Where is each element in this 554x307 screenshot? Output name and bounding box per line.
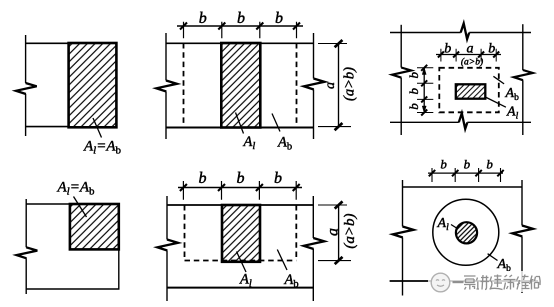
- watermark logo circle: [431, 273, 450, 292]
- fig2 top dimension line: [177, 25, 303, 27]
- watermark glyph ge: [464, 276, 476, 290]
- fig5 leader Ab: [277, 250, 287, 271]
- fig5 right edge upper segment: [312, 196, 314, 238]
- watermark logo face marks: [436, 280, 445, 287]
- fig6 dim extension stubs: [432, 168, 501, 182]
- fig5 right dim extension top: [318, 204, 347, 206]
- fig3 top dim extension stubs: [441, 49, 496, 62]
- fig2 leader Ab: [272, 114, 280, 132]
- fig6 right edge upper segment: [521, 180, 523, 226]
- fig3 dashed rectangle Ab: [439, 68, 499, 113]
- fig3 left dim arrow up: [422, 68, 426, 75]
- svg-text:b: b: [464, 157, 471, 172]
- fig3 left dim extension stubs: [417, 68, 433, 113]
- fig5 right dim vertical line: [338, 205, 340, 261]
- fig2 dashed line right: [296, 43, 298, 127]
- fig4 leader line: [74, 197, 87, 218]
- fig6 dim tick slashes: [429, 170, 504, 176]
- watermark white halo: [428, 271, 540, 292]
- fig6 top edge: [403, 186, 523, 188]
- svg-text:b: b: [274, 170, 282, 187]
- fig3 top edge right segment: [469, 32, 531, 34]
- fig1 bottom edge: [25, 126, 69, 128]
- fig1 top edge: [25, 42, 69, 44]
- fig5 dashed line right: [295, 205, 297, 261]
- fig6 right edge lower segment: [521, 237, 523, 294]
- fig5 right edge break symbol: [304, 238, 325, 249]
- fig2 right edge lower segment: [313, 90, 315, 140]
- svg-text:b: b: [406, 103, 421, 110]
- fig6 bottom edge: [390, 280, 538, 282]
- fig1 leader line to label: [93, 118, 102, 138]
- svg-text:b: b: [406, 88, 421, 95]
- fig5 left edge lower segment: [166, 251, 168, 302]
- svg-text:b: b: [486, 157, 493, 172]
- fig6 small hatched circle Al: [456, 222, 477, 243]
- fig3 bottom edge break symbol: [459, 113, 468, 129]
- fig4 right edge lower segment: [118, 249, 120, 289]
- svg-text:b: b: [444, 42, 451, 57]
- fig2 top edge: [166, 42, 314, 44]
- fig2 dashed line left: [183, 43, 185, 127]
- svg-text:b: b: [440, 157, 447, 172]
- fig1 wall left edge break symbol: [16, 83, 37, 94]
- fig1 wall left edge upper segment: [25, 35, 27, 83]
- svg-text:(a>b): (a>b): [461, 57, 483, 68]
- fig3 left dim arrow down: [422, 106, 426, 113]
- fig3 top dim tick slashes: [438, 52, 499, 58]
- fig5 right edge lower segment: [312, 249, 314, 301]
- fig3 bottom edge right segment: [467, 121, 531, 123]
- watermark glyph jie: [517, 275, 530, 290]
- fig2 right edge upper segment: [313, 33, 315, 79]
- watermark glyph jiang: [477, 275, 490, 290]
- fig5 bottom edge: [167, 287, 313, 289]
- fig5 hatched column strip Al: [222, 205, 260, 262]
- svg-text:b: b: [406, 71, 421, 78]
- fig5 dashed line left: [184, 205, 186, 261]
- fig3 top edge left segment: [390, 32, 461, 34]
- fig5 leader Al: [237, 252, 247, 273]
- fig6 big circle Ab: [433, 199, 499, 265]
- fig6 left edge break symbol: [393, 227, 414, 238]
- svg-text:b: b: [488, 42, 495, 57]
- fig6 left edge lower segment: [402, 238, 404, 296]
- fig3 hatched rectangle Al: [456, 84, 486, 98]
- svg-text:a: a: [325, 228, 342, 236]
- fig3 right edge lower segment: [522, 80, 524, 135]
- fig2 right dim arrow up: [335, 40, 343, 47]
- fig3 leader Ab: [493, 76, 504, 84]
- svg-text:(a>b): (a>b): [342, 67, 358, 101]
- fig3 top edge break symbol: [461, 23, 470, 39]
- watermark glyph zhu: [504, 275, 516, 290]
- fig3 bottom edge left segment: [390, 121, 459, 123]
- fig2 right dim arrow down: [335, 123, 343, 130]
- svg-text:a: a: [467, 42, 474, 57]
- fig3 right edge upper segment: [522, 24, 524, 70]
- fig6 top dim line: [428, 172, 503, 174]
- fig2 left edge upper segment: [165, 33, 167, 81]
- fig3 right edge break symbol: [514, 70, 533, 80]
- watermark glyph jian: [490, 275, 503, 290]
- fig5 left edge break symbol: [157, 240, 178, 251]
- fig5 right dim extension bottom: [318, 260, 351, 262]
- watermark dash char yi: [453, 281, 464, 283]
- svg-text:a: a: [323, 82, 338, 89]
- svg-text:b: b: [275, 10, 283, 27]
- svg-text:b: b: [237, 10, 245, 27]
- fig2 right dim extension top: [318, 43, 347, 45]
- fig6 leader Al: [451, 225, 457, 229]
- fig2 right dim extension bottom: [318, 126, 351, 128]
- fig4 hatched square Al=Ab: [70, 204, 119, 249]
- fig2 left edge lower segment: [165, 92, 167, 140]
- fig3 left dim vertical line: [423, 68, 425, 114]
- fig5 right dim arrow down: [335, 257, 343, 264]
- fig6 left edge upper segment: [402, 180, 404, 227]
- fig4 left edge upper segment: [25, 199, 27, 247]
- svg-text:b: b: [199, 10, 207, 27]
- fig2 right dim vertical line: [338, 44, 340, 127]
- fig3 left edge break symbol: [392, 68, 411, 78]
- fig5 top edge: [167, 204, 313, 206]
- fig4 left edge lower segment: [25, 258, 27, 294]
- watermark glyph gou: [530, 276, 541, 290]
- fig2 dim tick slashes: [180, 23, 300, 30]
- svg-text:(a>b): (a>b): [342, 213, 358, 248]
- fig3 top dim line: [436, 54, 501, 56]
- fig4 left edge break symbol: [17, 247, 38, 258]
- fig3 left edge upper segment: [400, 25, 402, 68]
- fig3 left dim tick slashes: [421, 65, 427, 116]
- fig2 left edge break symbol: [156, 81, 177, 92]
- fig3 leader Al: [485, 97, 506, 107]
- fig2 bottom edge: [166, 127, 314, 129]
- fig2 hatched column strip Al: [221, 43, 260, 128]
- fig6 right edge break symbol: [512, 226, 533, 237]
- fig5 left edge upper segment: [166, 196, 168, 240]
- fig5 top dimension line: [178, 187, 302, 189]
- fig6 leader Ab: [488, 254, 498, 261]
- svg-text:b: b: [199, 170, 207, 187]
- svg-text:b: b: [237, 170, 245, 187]
- fig5 right dim arrow up: [335, 201, 343, 208]
- fig4 bottom edge: [26, 288, 120, 290]
- watermark group: [428, 271, 540, 292]
- fig5 dim extension stubs: [183, 181, 296, 200]
- fig3 left edge lower segment: [400, 78, 402, 135]
- fig2 dim extension stubs: [184, 22, 297, 39]
- fig2 right edge break symbol: [304, 79, 325, 90]
- fig1 wall left edge lower segment: [25, 94, 27, 136]
- fig4 top edge: [26, 203, 71, 205]
- fig1 hatched column area Al=Ab: [69, 43, 117, 127]
- fig2 leader Al: [236, 113, 244, 134]
- fig5 dim tick slashes: [180, 184, 300, 191]
- fig5 dashed line bottom: [185, 260, 297, 262]
